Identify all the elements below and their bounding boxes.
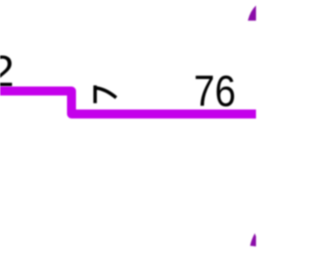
node B: rotated label 7: [93, 85, 116, 103]
arrowhead bottom-right (clipped): [250, 233, 256, 246]
arrowhead top-right (clipped): [248, 6, 256, 21]
svg-text:76: 76: [194, 68, 236, 116]
svg-text:2: 2: [0, 48, 14, 96]
wire: magenta stepped edge: [0, 91, 262, 114]
